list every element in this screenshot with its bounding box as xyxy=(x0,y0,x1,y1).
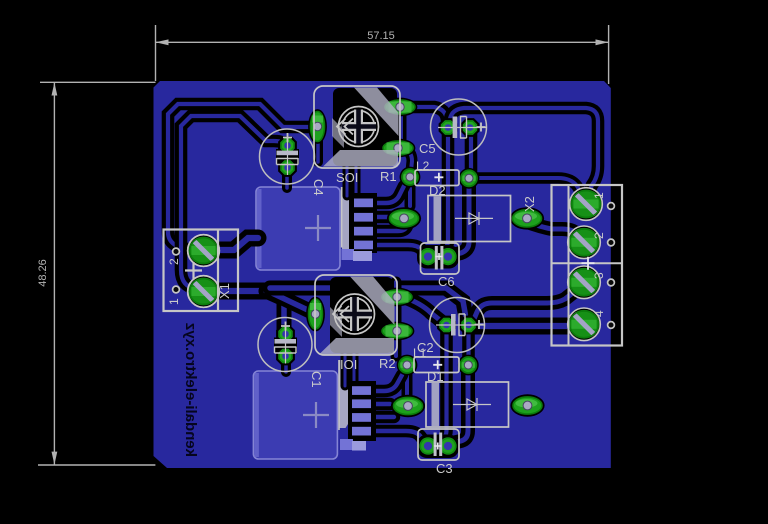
capacitor C3 pads xyxy=(417,435,439,457)
capacitor C4 pads xyxy=(278,136,297,155)
IC U1 pad 1 xyxy=(354,199,373,208)
diode D2 pads xyxy=(387,207,421,229)
IC U1 pad 2 xyxy=(354,213,373,222)
diode D2 silk box and symbol xyxy=(434,197,442,241)
board outline (blue PCB) xyxy=(154,81,611,468)
IC U1 pad 4 xyxy=(354,241,373,250)
IC U1 pad 3 xyxy=(354,227,373,236)
svg-text:D1: D1 xyxy=(427,369,444,384)
svg-text:C5: C5 xyxy=(419,141,436,156)
svg-text:48.26: 48.26 xyxy=(37,259,49,287)
wire U2 pad row3 to D1 oval xyxy=(373,411,394,424)
capacitor C2 pads xyxy=(437,316,456,335)
svg-text:R2: R2 xyxy=(379,356,396,371)
wire SOI2 pad1 to C2 left pad xyxy=(403,297,441,321)
inductor L2 silk box xyxy=(415,170,459,186)
regulator U2 silk box xyxy=(350,277,395,326)
capacitor C3 pad isolation xyxy=(417,435,459,459)
wire X1.1 main run xyxy=(206,283,268,300)
resistor R1 pad xyxy=(400,167,421,188)
wire U1 pad row3 stub xyxy=(374,226,407,231)
wire U1 pins down to U1 pads xyxy=(343,150,352,196)
svg-text:1: 1 xyxy=(167,298,181,305)
inductor L1 silk box xyxy=(414,357,459,373)
capacitor C6 pad isolation xyxy=(417,245,459,269)
IC U2 pad 5 xyxy=(340,439,353,450)
wire R1 pad down to D2 left oval xyxy=(405,181,416,206)
svg-text:2: 2 xyxy=(592,232,606,239)
node K1 origin cross xyxy=(305,215,331,241)
svg-text:IOI: IOI xyxy=(340,357,357,372)
wire C2 left pad down to C3 left pad xyxy=(434,331,447,443)
wire U2 pad row1 up to R2 pad xyxy=(373,375,402,391)
diode D1 pads xyxy=(391,395,425,417)
wire SOI1 pad2 to R1 pad xyxy=(403,148,412,171)
capacitor C3 silk box and plates xyxy=(418,429,459,460)
wire U2 pins down to U2 pads xyxy=(341,340,350,386)
svg-text:C4: C4 xyxy=(311,179,326,196)
wire U1 pad row2 to D2 left oval xyxy=(374,211,392,224)
wire R2 pad down to D1 left oval xyxy=(402,369,413,398)
capacitor C5 pads xyxy=(439,118,458,137)
IC U2 pad 1 xyxy=(352,386,371,395)
terminal X1 silk box xyxy=(164,230,239,312)
capacitor C4 silk circle and plates xyxy=(260,129,315,184)
wire L1 right pad down to C3 right pad xyxy=(452,369,468,443)
wire C5 left pad down to C6 left pad xyxy=(434,134,448,254)
node K2 origin cross xyxy=(303,402,329,428)
capacitor C1 silk circle and plates xyxy=(258,318,312,372)
svg-text:57.15: 57.15 xyxy=(367,30,395,42)
capacitor C5 silk circle and plates xyxy=(431,99,487,155)
wire SOI1 left pad stub xyxy=(313,140,323,162)
terminal X2 index holes xyxy=(608,203,615,210)
svg-text:L1: L1 xyxy=(413,346,427,360)
capacitor C1 pads xyxy=(276,325,295,344)
IC U2 silk edge line xyxy=(338,360,340,430)
svg-text:L2: L2 xyxy=(416,159,430,173)
wire junction to U2 left pad xyxy=(272,293,312,312)
svg-text:C6: C6 xyxy=(438,274,455,289)
IC U1 pad 5 xyxy=(342,249,355,260)
IC U1 pad field xyxy=(349,193,377,253)
svg-text:C3: C3 xyxy=(436,461,453,476)
inductor L2 right pad xyxy=(459,168,480,189)
resistor R2 pad xyxy=(397,355,418,376)
wire C2 right pad to X2.4 xyxy=(472,318,582,335)
wire X1.2 to C4 pour corner (outer thin) xyxy=(168,104,310,250)
capacitor C2 silk circle and plates xyxy=(430,298,485,353)
terminal X1 index holes xyxy=(173,248,180,255)
svg-text:C1: C1 xyxy=(309,371,324,388)
wire U1 pad row4 to C6 left pad xyxy=(374,245,426,253)
regulator U2 (SOI) pads xyxy=(306,297,325,332)
wire L2 right pad to X2.1 xyxy=(472,178,585,199)
wire U1 pad row1 to R1 pad xyxy=(374,186,404,203)
relay/module K1 body (top channel, bottom-layer pad box) xyxy=(256,187,340,270)
terminal X2 pads xyxy=(570,188,603,221)
capacitor C6 silk box and plates xyxy=(421,243,460,274)
wire between SOI2 right pads xyxy=(391,282,402,356)
wire between SOI1 right pads xyxy=(396,112,407,144)
svg-text:kendali-elektro.xyz: kendali-elektro.xyz xyxy=(182,323,199,457)
wire C1 bottom pad to K2 xyxy=(281,356,291,372)
IC U1 silk strip (top channel) xyxy=(342,187,353,255)
IC U2 silk strip (bottom channel) xyxy=(340,360,351,428)
relay/module K2 body (bottom channel) xyxy=(253,371,337,459)
svg-text:3: 3 xyxy=(592,272,606,279)
svg-text:X2: X2 xyxy=(522,196,537,212)
terminal X2 silk box xyxy=(552,185,623,346)
terminal X1 pads xyxy=(188,235,220,267)
dimension 48.26 left xyxy=(53,83,55,465)
capacitor C5 pad isolation xyxy=(465,131,478,172)
IC U2 pad 2 xyxy=(352,399,371,408)
wire L2 right pad down to C6 right pad xyxy=(452,183,469,255)
IC U2 pad field xyxy=(348,381,376,441)
wire D2 right oval to X2.2 xyxy=(530,223,584,240)
wire junction down to C1 plus pad xyxy=(266,291,284,330)
inductor L1 right pad xyxy=(458,355,479,376)
svg-text:X1: X1 xyxy=(217,283,232,299)
wire long run to C2 xyxy=(270,288,466,318)
regulator U1 (SOI) pads xyxy=(308,109,327,144)
wire X2.3 to C2 area xyxy=(474,284,584,319)
capacitor C1 pad isolation xyxy=(274,338,297,353)
regulator U1 interior isolation xyxy=(333,88,397,166)
wire SOI1 pad1 to C5 left pad xyxy=(404,107,448,126)
wire C5 to top-right corner to X2.1 xyxy=(450,108,598,197)
capacitor C6 pads xyxy=(417,246,439,268)
wire X1.2 to K1 left xyxy=(206,238,258,250)
svg-text:4: 4 xyxy=(592,310,606,317)
capacitor C4 pad isolation xyxy=(276,149,299,164)
regulator U2 interior isolation xyxy=(330,277,393,353)
svg-text:SOI: SOI xyxy=(336,170,358,185)
svg-text:1: 1 xyxy=(592,192,606,199)
IC U2 pad 3 xyxy=(352,413,371,422)
svg-text:2: 2 xyxy=(167,258,181,265)
svg-text:R1: R1 xyxy=(380,169,397,184)
IC U2 pad 4 xyxy=(352,427,371,436)
IC U1 silk edge line xyxy=(341,187,343,248)
diode D1 silk box and symbol xyxy=(432,383,440,426)
wire C4 bottom pad to K1 xyxy=(282,168,292,188)
regulator U1 silk box xyxy=(354,88,399,137)
wire U2 pad row2 stub xyxy=(373,398,390,411)
wire X1.1 to C4 top pad (inner thin) xyxy=(181,116,287,289)
svg-text:D2: D2 xyxy=(429,183,446,198)
dimension 57.15 top xyxy=(156,41,609,43)
wire U2 pad row4 to C3 left pad xyxy=(373,431,425,442)
capacitor C2 pad isolation xyxy=(462,329,475,359)
